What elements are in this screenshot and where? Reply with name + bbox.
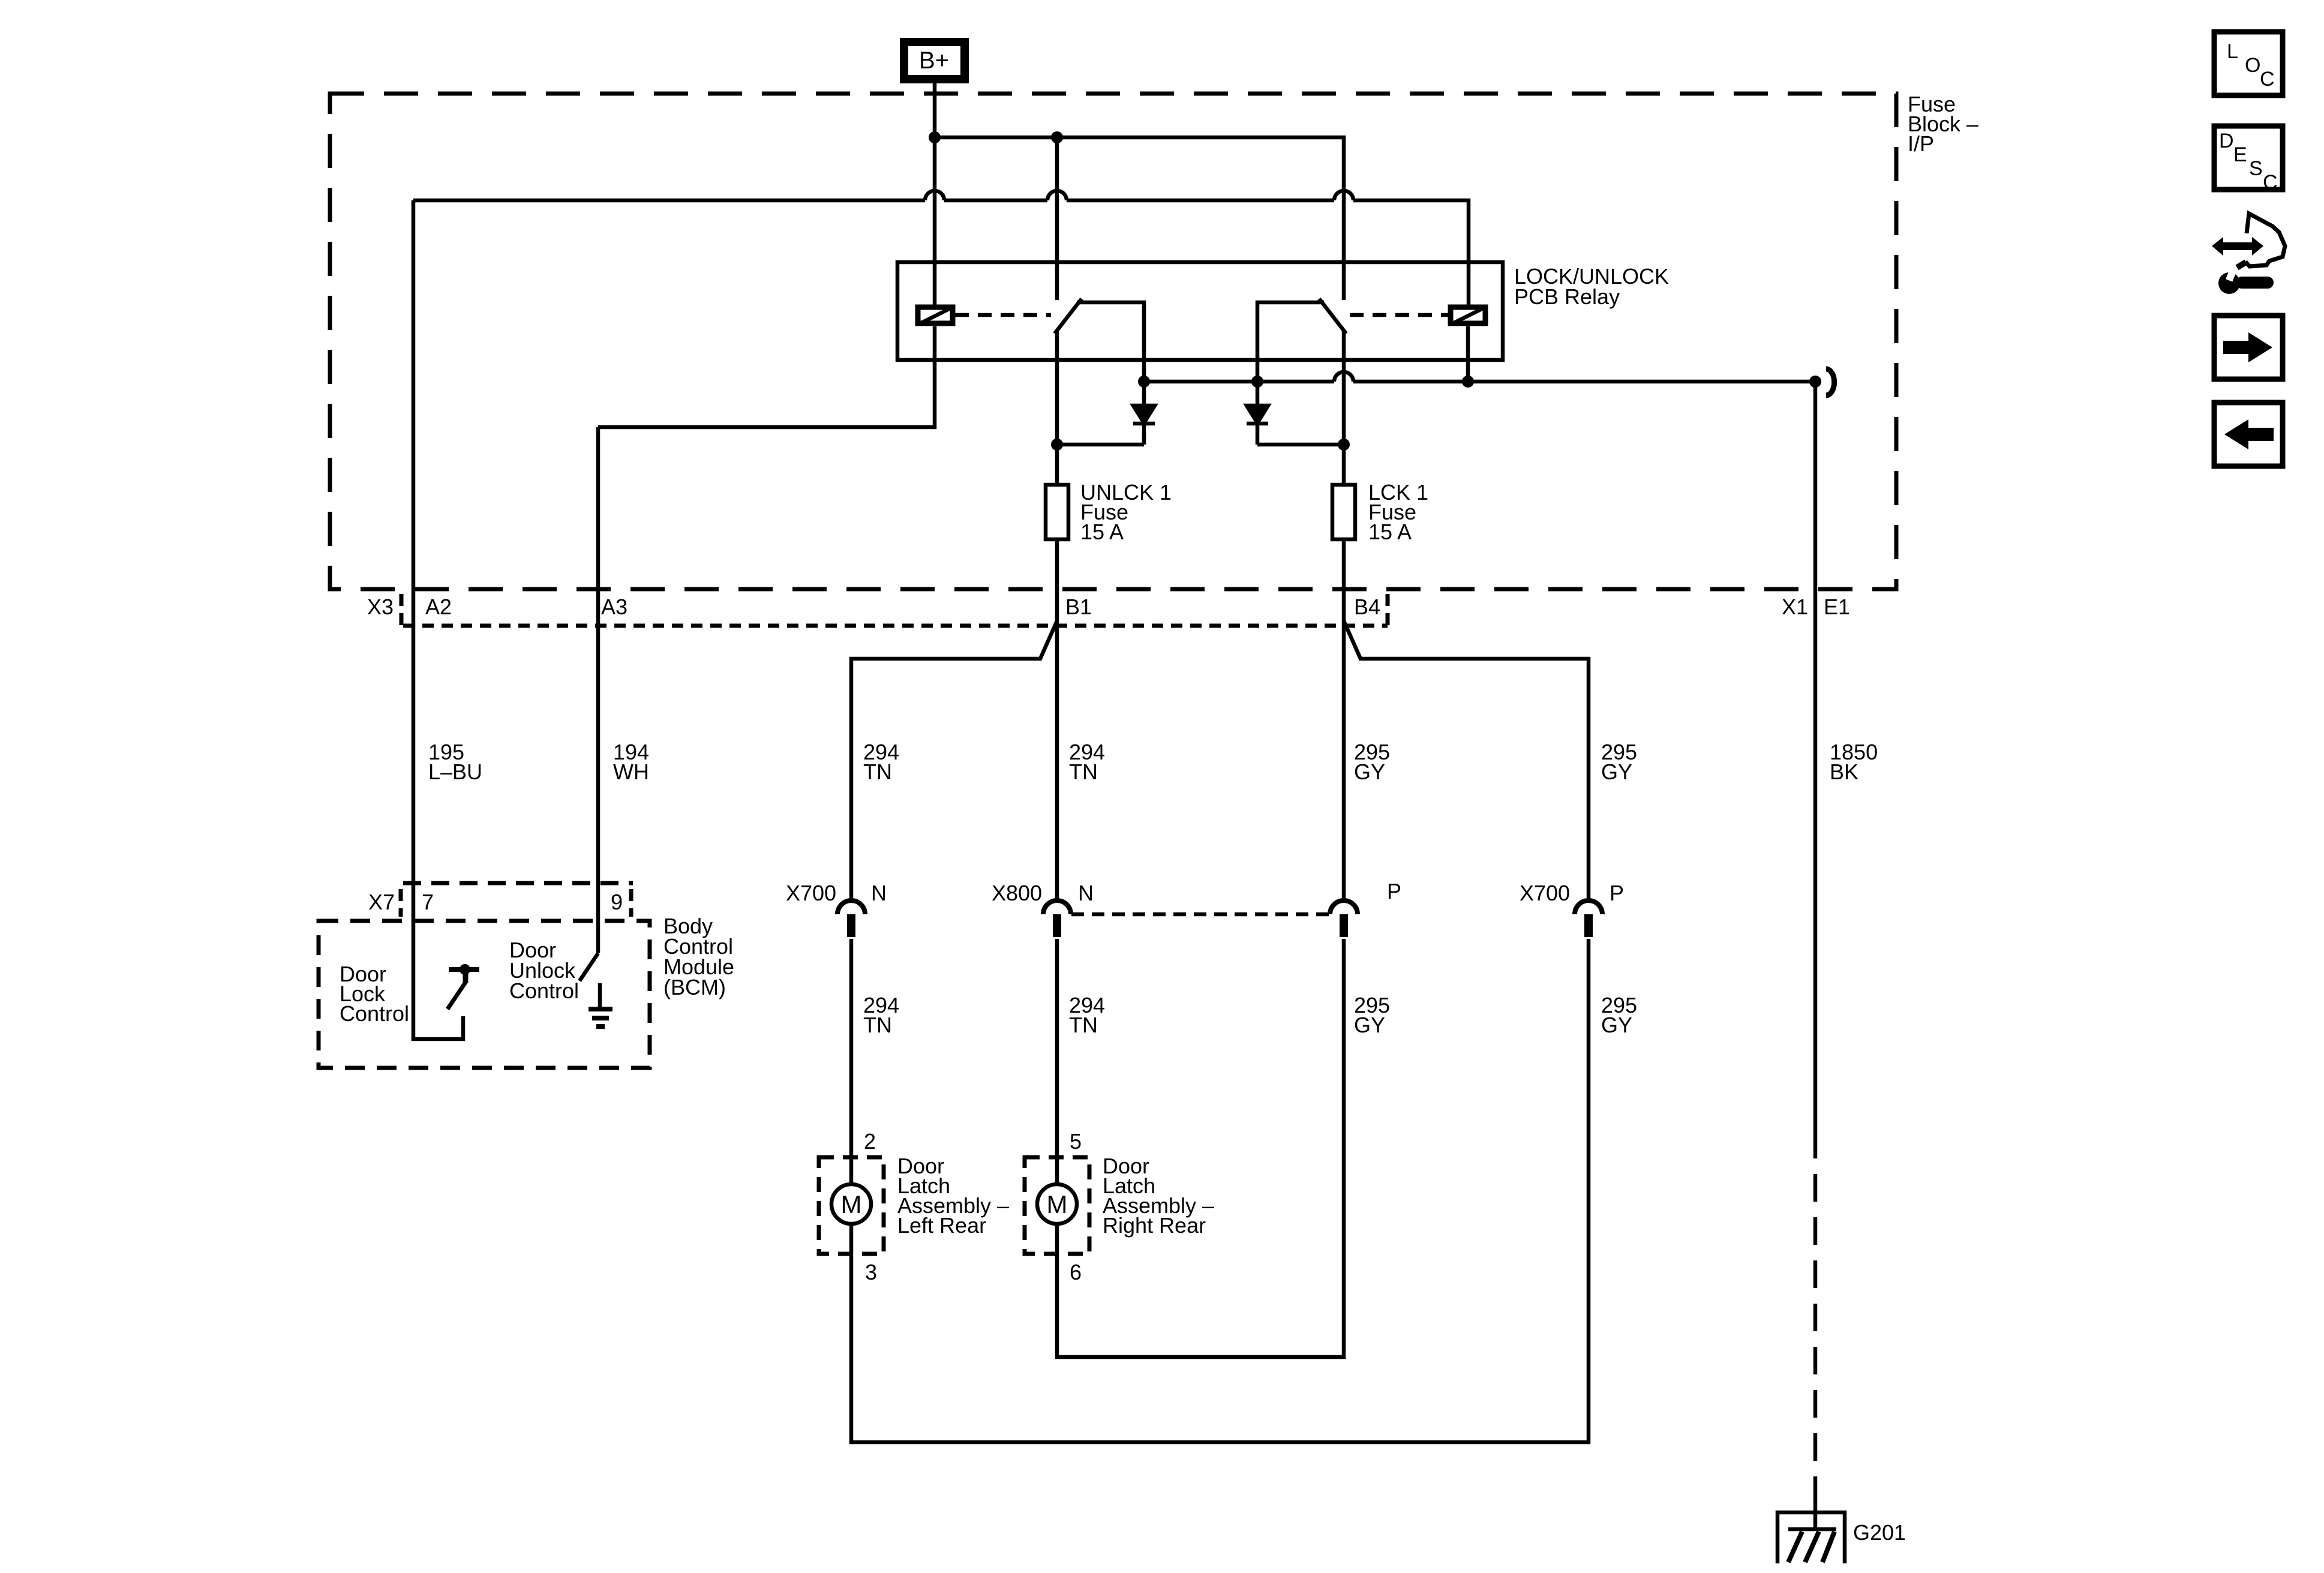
svg-text:TN: TN bbox=[863, 1013, 892, 1037]
svg-text:X800: X800 bbox=[992, 881, 1042, 905]
svg-text:5: 5 bbox=[1070, 1129, 1082, 1154]
svg-text:C: C bbox=[2263, 171, 2278, 194]
svg-text:BK: BK bbox=[1830, 760, 1858, 784]
svg-text:B+: B+ bbox=[919, 47, 949, 74]
svg-text:X700: X700 bbox=[1520, 881, 1570, 905]
svg-text:Right Rear: Right Rear bbox=[1103, 1213, 1206, 1238]
svg-text:GY: GY bbox=[1601, 1013, 1632, 1037]
svg-text:3: 3 bbox=[865, 1260, 877, 1284]
svg-text:P: P bbox=[1610, 881, 1624, 905]
svg-text:PCB Relay: PCB Relay bbox=[1514, 284, 1620, 309]
svg-text:M: M bbox=[841, 1190, 862, 1218]
svg-text:P: P bbox=[1387, 879, 1401, 903]
svg-text:X3: X3 bbox=[367, 595, 394, 619]
svg-text:Control: Control bbox=[509, 978, 579, 1003]
svg-text:TN: TN bbox=[1069, 1013, 1098, 1037]
svg-text:S: S bbox=[2249, 157, 2263, 180]
svg-text:M: M bbox=[1047, 1190, 1068, 1218]
svg-text:GY: GY bbox=[1354, 760, 1385, 784]
svg-text:9: 9 bbox=[611, 890, 623, 914]
svg-text:(BCM): (BCM) bbox=[663, 975, 726, 999]
svg-text:A2: A2 bbox=[425, 595, 452, 619]
svg-text:N: N bbox=[1078, 881, 1094, 905]
svg-text:15 A: 15 A bbox=[1080, 520, 1124, 544]
svg-text:X7: X7 bbox=[368, 890, 395, 914]
svg-text:WH: WH bbox=[613, 760, 649, 784]
svg-text:N: N bbox=[871, 881, 887, 905]
svg-text:L: L bbox=[2227, 40, 2238, 63]
svg-text:B1: B1 bbox=[1065, 595, 1092, 619]
svg-text:C: C bbox=[2260, 68, 2275, 91]
svg-text:B4: B4 bbox=[1354, 595, 1380, 619]
svg-text:X1: X1 bbox=[1782, 595, 1808, 619]
svg-text:E: E bbox=[2233, 143, 2247, 166]
svg-text:O: O bbox=[2245, 54, 2260, 77]
svg-text:GY: GY bbox=[1354, 1013, 1385, 1037]
svg-text:6: 6 bbox=[1070, 1260, 1082, 1284]
svg-text:I/P: I/P bbox=[1908, 131, 1934, 156]
svg-text:X700: X700 bbox=[786, 881, 836, 905]
svg-text:D: D bbox=[2219, 130, 2234, 152]
svg-text:G201: G201 bbox=[1853, 1520, 1906, 1545]
svg-text:E1: E1 bbox=[1824, 595, 1850, 619]
svg-text:TN: TN bbox=[1069, 760, 1098, 784]
svg-text:7: 7 bbox=[422, 890, 434, 914]
svg-text:TN: TN bbox=[863, 760, 892, 784]
svg-text:GY: GY bbox=[1601, 760, 1632, 784]
svg-text:15 A: 15 A bbox=[1368, 520, 1412, 544]
svg-text:2: 2 bbox=[864, 1129, 876, 1154]
svg-text:L–BU: L–BU bbox=[428, 760, 482, 784]
svg-text:Control: Control bbox=[340, 1001, 409, 1026]
svg-text:A3: A3 bbox=[601, 595, 627, 619]
svg-text:Left Rear: Left Rear bbox=[897, 1213, 986, 1238]
